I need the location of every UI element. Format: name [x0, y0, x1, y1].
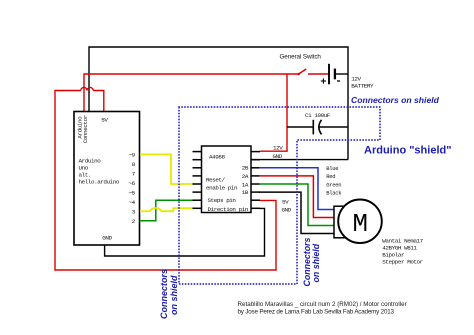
shield boundary (dotted blue outline) — [179, 107, 380, 284]
wire: blue 2B to motor — [259, 168, 335, 210]
right pin stubs — [251, 151, 261, 153]
svg-text:General Switch: General Switch — [280, 54, 322, 61]
wire: 12V tap down to C1 and A4988 12V pin — [286, 74, 288, 151]
wire: GND from A4988 12V-GND pin to rail — [251, 159, 349, 161]
svg-text:Steps pin: Steps pin — [208, 197, 237, 204]
switch S1 (General Switch) — [298, 69, 329, 75]
svg-text:Retablillo Maravillas _ circui: Retablillo Maravillas _ circuit num 2 (R… — [238, 301, 407, 308]
svg-text:Blue: Blue — [326, 165, 338, 172]
svg-text:Uno: Uno — [79, 165, 89, 172]
svg-text:2A: 2A — [242, 173, 249, 180]
svg-text:Wantai Nema17: Wantai Nema17 — [382, 237, 423, 244]
wire: red 5V loop down left, along bottom, up to A4988 5V pin — [55, 91, 276, 271]
svg-text:~4: ~4 — [129, 199, 136, 206]
U1 body — [202, 146, 252, 213]
wire: red 12V into A4988 motor supply pin — [260, 150, 288, 152]
wire: green Arduino pin 2 to A4988 steps pin — [140, 200, 195, 221]
label Wantai Nema17 42BYGH W811 Bipolar Stepper Motor — [382, 237, 423, 265]
battery B1 plates — [329, 64, 335, 85]
wire: yellow Arduino pin 3 to A4988 direction pin — [140, 210, 151, 212]
motor M1 terminal block — [334, 206, 347, 238]
wire: GND rail (Arduino Vin-GND pin up, across top, down right side) — [89, 47, 348, 160]
wire: green 1A to motor — [259, 184, 335, 226]
wire: yellow Arduino pin ~9 to A4988 reset/enable pin — [140, 154, 195, 184]
svg-text:M: M — [353, 210, 368, 239]
driver U1 A4988 — [193, 146, 261, 213]
svg-text:enable pin: enable pin — [206, 185, 238, 192]
svg-text:~9: ~9 — [129, 152, 136, 159]
svg-text:2B: 2B — [242, 165, 249, 172]
svg-text:12V: 12V — [273, 145, 283, 152]
label Arduino Uno alt. hello.arduino — [79, 158, 120, 186]
svg-text:1A: 1A — [242, 181, 249, 188]
motor M1 body — [338, 200, 382, 244]
svg-text:Connectors: Connectors — [159, 269, 169, 319]
wire: black 1B to motor — [259, 192, 335, 233]
wire: battery minus to GND rail — [335, 73, 348, 75]
svg-text:alt.: alt. — [79, 172, 91, 179]
svg-text:by Jose Perez de Lama Fab Lab: by Jose Perez de Lama Fab Lab Sevilla Fa… — [238, 308, 395, 315]
svg-text:A4988: A4988 — [209, 154, 225, 161]
svg-text:GND: GND — [282, 206, 292, 213]
label Connectors on shield (right vertical) — [302, 238, 321, 287]
svg-text:C1 100uF: C1 100uF — [305, 112, 331, 119]
svg-text:Black: Black — [326, 189, 342, 196]
svg-text:1B: 1B — [242, 189, 249, 196]
svg-text:Red: Red — [326, 173, 335, 180]
svg-text:GND: GND — [102, 234, 112, 241]
svg-text:5V: 5V — [282, 198, 289, 205]
wire: red 5V loop Arduino 5V pin to left edge — [93, 91, 104, 112]
label - terminal — [337, 80, 340, 82]
svg-text:Connectors on shield: Connectors on shield — [351, 95, 440, 105]
label Connectors on shield (left vertical) — [159, 269, 179, 319]
wire: yellow continuation to direction pin — [161, 208, 195, 211]
svg-text:Arduino: Arduino — [79, 158, 102, 165]
svg-text:Reset/: Reset/ — [206, 177, 226, 184]
wire: red 2A to motor — [259, 176, 335, 218]
svg-text:Arduino "shield": Arduino "shield" — [364, 144, 451, 156]
svg-text:~5: ~5 — [129, 190, 136, 197]
label 12V BATTERY — [351, 75, 374, 89]
label Arduino Connector (rotated) — [77, 115, 89, 143]
svg-text:BATTERY: BATTERY — [351, 82, 374, 89]
svg-text:12V: 12V — [351, 75, 361, 82]
svg-text:GND: GND — [273, 153, 283, 160]
wire hop over green wire — [151, 208, 161, 211]
wire hop over red Vin vertical — [81, 87, 87, 90]
arduino connector J1 — [74, 112, 140, 246]
wire: +12V rail (Arduino Vin pin up and right to switch) — [84, 74, 299, 112]
svg-text:Green: Green — [326, 182, 341, 189]
svg-text:on shield: on shield — [169, 275, 179, 315]
left pin stubs — [193, 151, 202, 153]
svg-text:42BYGH W811: 42BYGH W811 — [382, 244, 417, 251]
svg-text:hello.arduino: hello.arduino — [79, 179, 120, 186]
wire: black GND loop Arduino GND to A4988 logic GND pin — [105, 208, 265, 256]
title text — [238, 301, 407, 316]
svg-text:~6: ~6 — [129, 180, 136, 187]
svg-text:Bipolar: Bipolar — [382, 251, 404, 258]
svg-text:Stepper Motor: Stepper Motor — [382, 258, 423, 265]
label + terminal — [321, 78, 326, 83]
svg-text:5V: 5V — [101, 117, 108, 124]
capacitor C1 — [287, 120, 348, 135]
svg-text:Direction pin: Direction pin — [208, 206, 249, 213]
wire hop over black GND vertical — [87, 87, 93, 90]
svg-text:on shield: on shield — [311, 243, 321, 282]
svg-text:Connector: Connector — [82, 115, 89, 143]
